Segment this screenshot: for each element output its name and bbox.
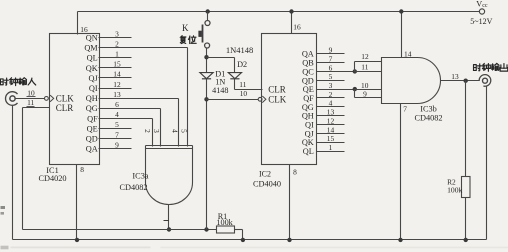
clock input terminal: [6, 92, 18, 106]
svg-text:13: 13: [327, 108, 335, 117]
svg-text:7: 7: [403, 105, 407, 114]
svg-text:IC3b: IC3b: [420, 104, 437, 113]
pin 12 wire IC2 QI: [317, 124, 345, 126]
switch K contact top: [205, 21, 210, 26]
junction R1 gnd: [241, 238, 245, 242]
svg-text:9: 9: [329, 46, 333, 55]
svg-text:CLR: CLR: [268, 85, 286, 95]
pin 16 wire IC1: [77, 12, 79, 35]
svg-text:4148: 4148: [212, 86, 228, 95]
clock output terminal: [479, 75, 491, 87]
wire Vcc top bus: [78, 11, 480, 13]
pin 4 wire IC2 QG: [317, 106, 345, 108]
svg-text:QL: QL: [87, 54, 98, 63]
svg-text:QE: QE: [303, 85, 314, 94]
junction D2 branch: [204, 55, 208, 59]
svg-text:4: 4: [329, 99, 333, 108]
pin 7 wire IC1 QD: [99, 138, 132, 140]
svg-text:CLR: CLR: [56, 103, 74, 113]
svg-text:8: 8: [293, 168, 297, 177]
svg-text:14: 14: [404, 50, 412, 59]
pin 15 wire IC2 QK: [317, 142, 345, 144]
pin 8 wire IC2: [289, 165, 291, 240]
IC IC2 CD4040 box: [262, 34, 317, 165]
pin 14 wire IC2 QJ: [317, 133, 345, 135]
pin 2 wire IC1 QM: [99, 47, 188, 49]
junction gate out reset: [167, 227, 171, 231]
resistor R2: [462, 177, 471, 198]
svg-text:CD4040: CD4040: [253, 179, 281, 188]
wire QF to gate pin2: [152, 119, 154, 147]
Vcc terminal: [479, 9, 484, 14]
pin 14 wire IC3b: [401, 12, 403, 58]
svg-text:11: 11: [27, 98, 34, 107]
IC IC1 CD4020 box: [50, 34, 100, 165]
pin 8 wire IC1: [76, 165, 78, 240]
wire reset line: [23, 229, 217, 231]
svg-text:9: 9: [363, 90, 367, 99]
wire QC to gate pin12: [354, 62, 356, 72]
svg-text:3: 3: [152, 129, 161, 133]
svg-text:QL: QL: [303, 147, 314, 156]
svg-text:6: 6: [115, 100, 119, 109]
wire QG to gate pin3: [160, 109, 162, 147]
svg-text:QD: QD: [86, 135, 98, 144]
svg-text:12: 12: [361, 52, 369, 61]
svg-text:QM: QM: [84, 44, 98, 53]
svg-text:12: 12: [327, 116, 335, 125]
svg-text:QF: QF: [87, 114, 98, 123]
svg-text:QE: QE: [87, 124, 98, 133]
svg-text:8: 8: [80, 165, 84, 174]
svg-text:1: 1: [115, 50, 119, 59]
svg-text:QJ: QJ: [305, 129, 315, 138]
svg-text:3: 3: [329, 81, 333, 90]
label 复位: [180, 36, 186, 44]
svg-text:IC3a: IC3a: [132, 171, 148, 180]
pin 6 wire IC2 QC: [317, 71, 355, 73]
diode D1: [200, 73, 213, 79]
label gate pin 1: [164, 220, 169, 222]
svg-text:QG: QG: [302, 103, 314, 112]
label 时钟输入: [0, 78, 8, 85]
svg-text:QJ: QJ: [88, 74, 98, 83]
pin 9 wire IC2 QA: [317, 53, 345, 55]
pin 3 wire IC2 QE: [317, 89, 355, 91]
svg-text:15: 15: [327, 134, 335, 143]
wire CLR riser: [23, 107, 50, 109]
svg-text:13: 13: [451, 72, 459, 81]
pin 16 wire IC2: [291, 12, 293, 34]
svg-text:7: 7: [115, 130, 119, 139]
svg-text:1N4148: 1N4148: [226, 45, 253, 55]
pin 9 wire IC1 QA: [99, 148, 132, 150]
svg-text:100k: 100k: [216, 218, 233, 227]
wire D1 to reset: [206, 79, 208, 230]
svg-text:2: 2: [115, 39, 119, 48]
svg-text:11: 11: [361, 62, 368, 71]
svg-text:100k: 100k: [447, 185, 462, 194]
wire input ground tail: [12, 106, 14, 240]
svg-text:QI: QI: [305, 121, 314, 130]
wire QE to gate pin10: [355, 89, 382, 91]
svg-text:QA: QA: [86, 145, 98, 154]
wire D2 to IC2 CLR: [234, 79, 236, 90]
wire QE to gate pin9: [354, 90, 356, 98]
pin 5 wire IC2 QD: [317, 80, 345, 82]
svg-text:14: 14: [327, 125, 335, 134]
svg-text:1: 1: [329, 143, 333, 152]
wire gate output: [168, 205, 170, 230]
junction IC2 clk: [204, 97, 208, 101]
pin 7 wire IC2 QB: [317, 62, 345, 64]
switch K bar: [202, 25, 204, 43]
svg-text:12: 12: [113, 80, 121, 89]
svg-text:7: 7: [329, 55, 333, 64]
clock bubble IC1: [45, 97, 49, 101]
wire D2 branch: [207, 57, 235, 59]
wire bus to switch: [207, 12, 209, 21]
wire R2 bottom: [465, 198, 467, 240]
svg-text:2: 2: [329, 90, 333, 99]
svg-text:QK: QK: [86, 64, 98, 73]
gate IC3b CD4082: [382, 58, 441, 104]
clock bubble IC2: [258, 97, 262, 101]
pin 2 wire IC2 QF: [317, 97, 345, 99]
svg-text:13: 13: [113, 90, 121, 99]
svg-text:11: 11: [239, 80, 246, 89]
switch K contact bottom: [205, 43, 210, 48]
junction D1 reset: [204, 227, 208, 231]
svg-text:QH: QH: [302, 112, 314, 121]
junction bus IC3b: [399, 9, 403, 13]
pin 14 wire IC1 QJ: [99, 77, 132, 79]
svg-text:QH: QH: [86, 94, 98, 103]
svg-text:QK: QK: [302, 138, 314, 147]
wire R2 top: [465, 81, 467, 177]
wire switch to D1: [206, 49, 208, 73]
svg-text:QA: QA: [302, 50, 314, 59]
svg-text:D2: D2: [237, 60, 247, 69]
scan artifact bottom: [1, 246, 9, 250]
junction QE split: [353, 87, 357, 91]
pin 6 wire IC1 QG: [99, 108, 161, 110]
svg-text:K: K: [182, 23, 189, 33]
wire QM to gate pin5: [187, 48, 189, 147]
svg-text:4: 4: [115, 110, 119, 119]
svg-text:2: 2: [143, 129, 152, 133]
svg-text:6: 6: [329, 63, 333, 72]
wire R1 to ground: [235, 229, 243, 231]
resistor R1: [217, 226, 235, 233]
svg-text:5~12V: 5~12V: [470, 17, 492, 26]
svg-text:CD4082: CD4082: [119, 183, 147, 192]
svg-text:QN: QN: [86, 34, 98, 43]
svg-text:QG: QG: [86, 104, 98, 113]
svg-text:CLK: CLK: [268, 95, 287, 105]
svg-text:10: 10: [240, 89, 248, 98]
svg-text:QI: QI: [89, 84, 98, 93]
svg-text:QB: QB: [302, 59, 314, 68]
junction bus switch: [206, 9, 210, 13]
scan artifact left: [1, 206, 6, 209]
pin 7 wire IC3b: [400, 104, 402, 240]
pin 13 wire IC2 QH: [317, 115, 345, 117]
svg-text:CD4020: CD4020: [38, 174, 66, 183]
svg-text:5: 5: [179, 129, 188, 133]
label 时钟输出: [474, 64, 482, 71]
junction IC1 pin8-gnd: [75, 238, 79, 242]
junction output R2: [464, 79, 468, 83]
diode D2: [228, 73, 241, 79]
wire QC to gate pin11: [355, 71, 382, 73]
wire output ground tail: [486, 87, 488, 240]
clock chevron IC2: [262, 96, 266, 103]
svg-text:CD4082: CD4082: [414, 113, 442, 122]
junction bus IC2: [289, 9, 293, 13]
wire IC3b output: [441, 80, 480, 82]
gate IC3a CD4082: [146, 146, 193, 205]
junction QC split: [353, 69, 357, 73]
pin 4 wire IC1 QF: [99, 118, 153, 120]
clock chevron IC1: [50, 95, 54, 102]
svg-text:14: 14: [113, 70, 121, 79]
pin 3 wire IC1 QN: [99, 37, 132, 39]
pin 5 wire IC1 QE: [99, 128, 132, 130]
junction IC2 pin8 gnd: [287, 238, 291, 242]
svg-text:IC2: IC2: [259, 170, 271, 179]
pin 12 wire IC1 QI: [99, 88, 132, 90]
junction IC3b gnd: [398, 238, 402, 242]
svg-text:5: 5: [329, 72, 333, 81]
wire ground bus: [13, 239, 487, 241]
pin 1 wire IC2 QL: [317, 151, 345, 153]
svg-text:QF: QF: [303, 94, 314, 103]
svg-text:QC: QC: [302, 67, 314, 76]
wire QH to gate pin4: [178, 99, 180, 147]
pin 1 wire IC1 QL: [99, 57, 132, 59]
pin 15 wire IC1 QK: [99, 67, 132, 69]
pin 13 wire IC1 QH: [99, 98, 179, 100]
wire to IC2 CLK: [207, 99, 259, 101]
junction R2 gnd: [464, 238, 468, 242]
svg-text:16: 16: [293, 23, 301, 32]
wire input to CLK: [16, 98, 45, 100]
svg-text:5: 5: [115, 120, 119, 129]
svg-text:QD: QD: [302, 76, 314, 85]
svg-text:4: 4: [170, 129, 179, 133]
svg-text:9: 9: [115, 140, 119, 149]
svg-text:15: 15: [113, 60, 121, 69]
svg-text:3: 3: [115, 29, 119, 38]
